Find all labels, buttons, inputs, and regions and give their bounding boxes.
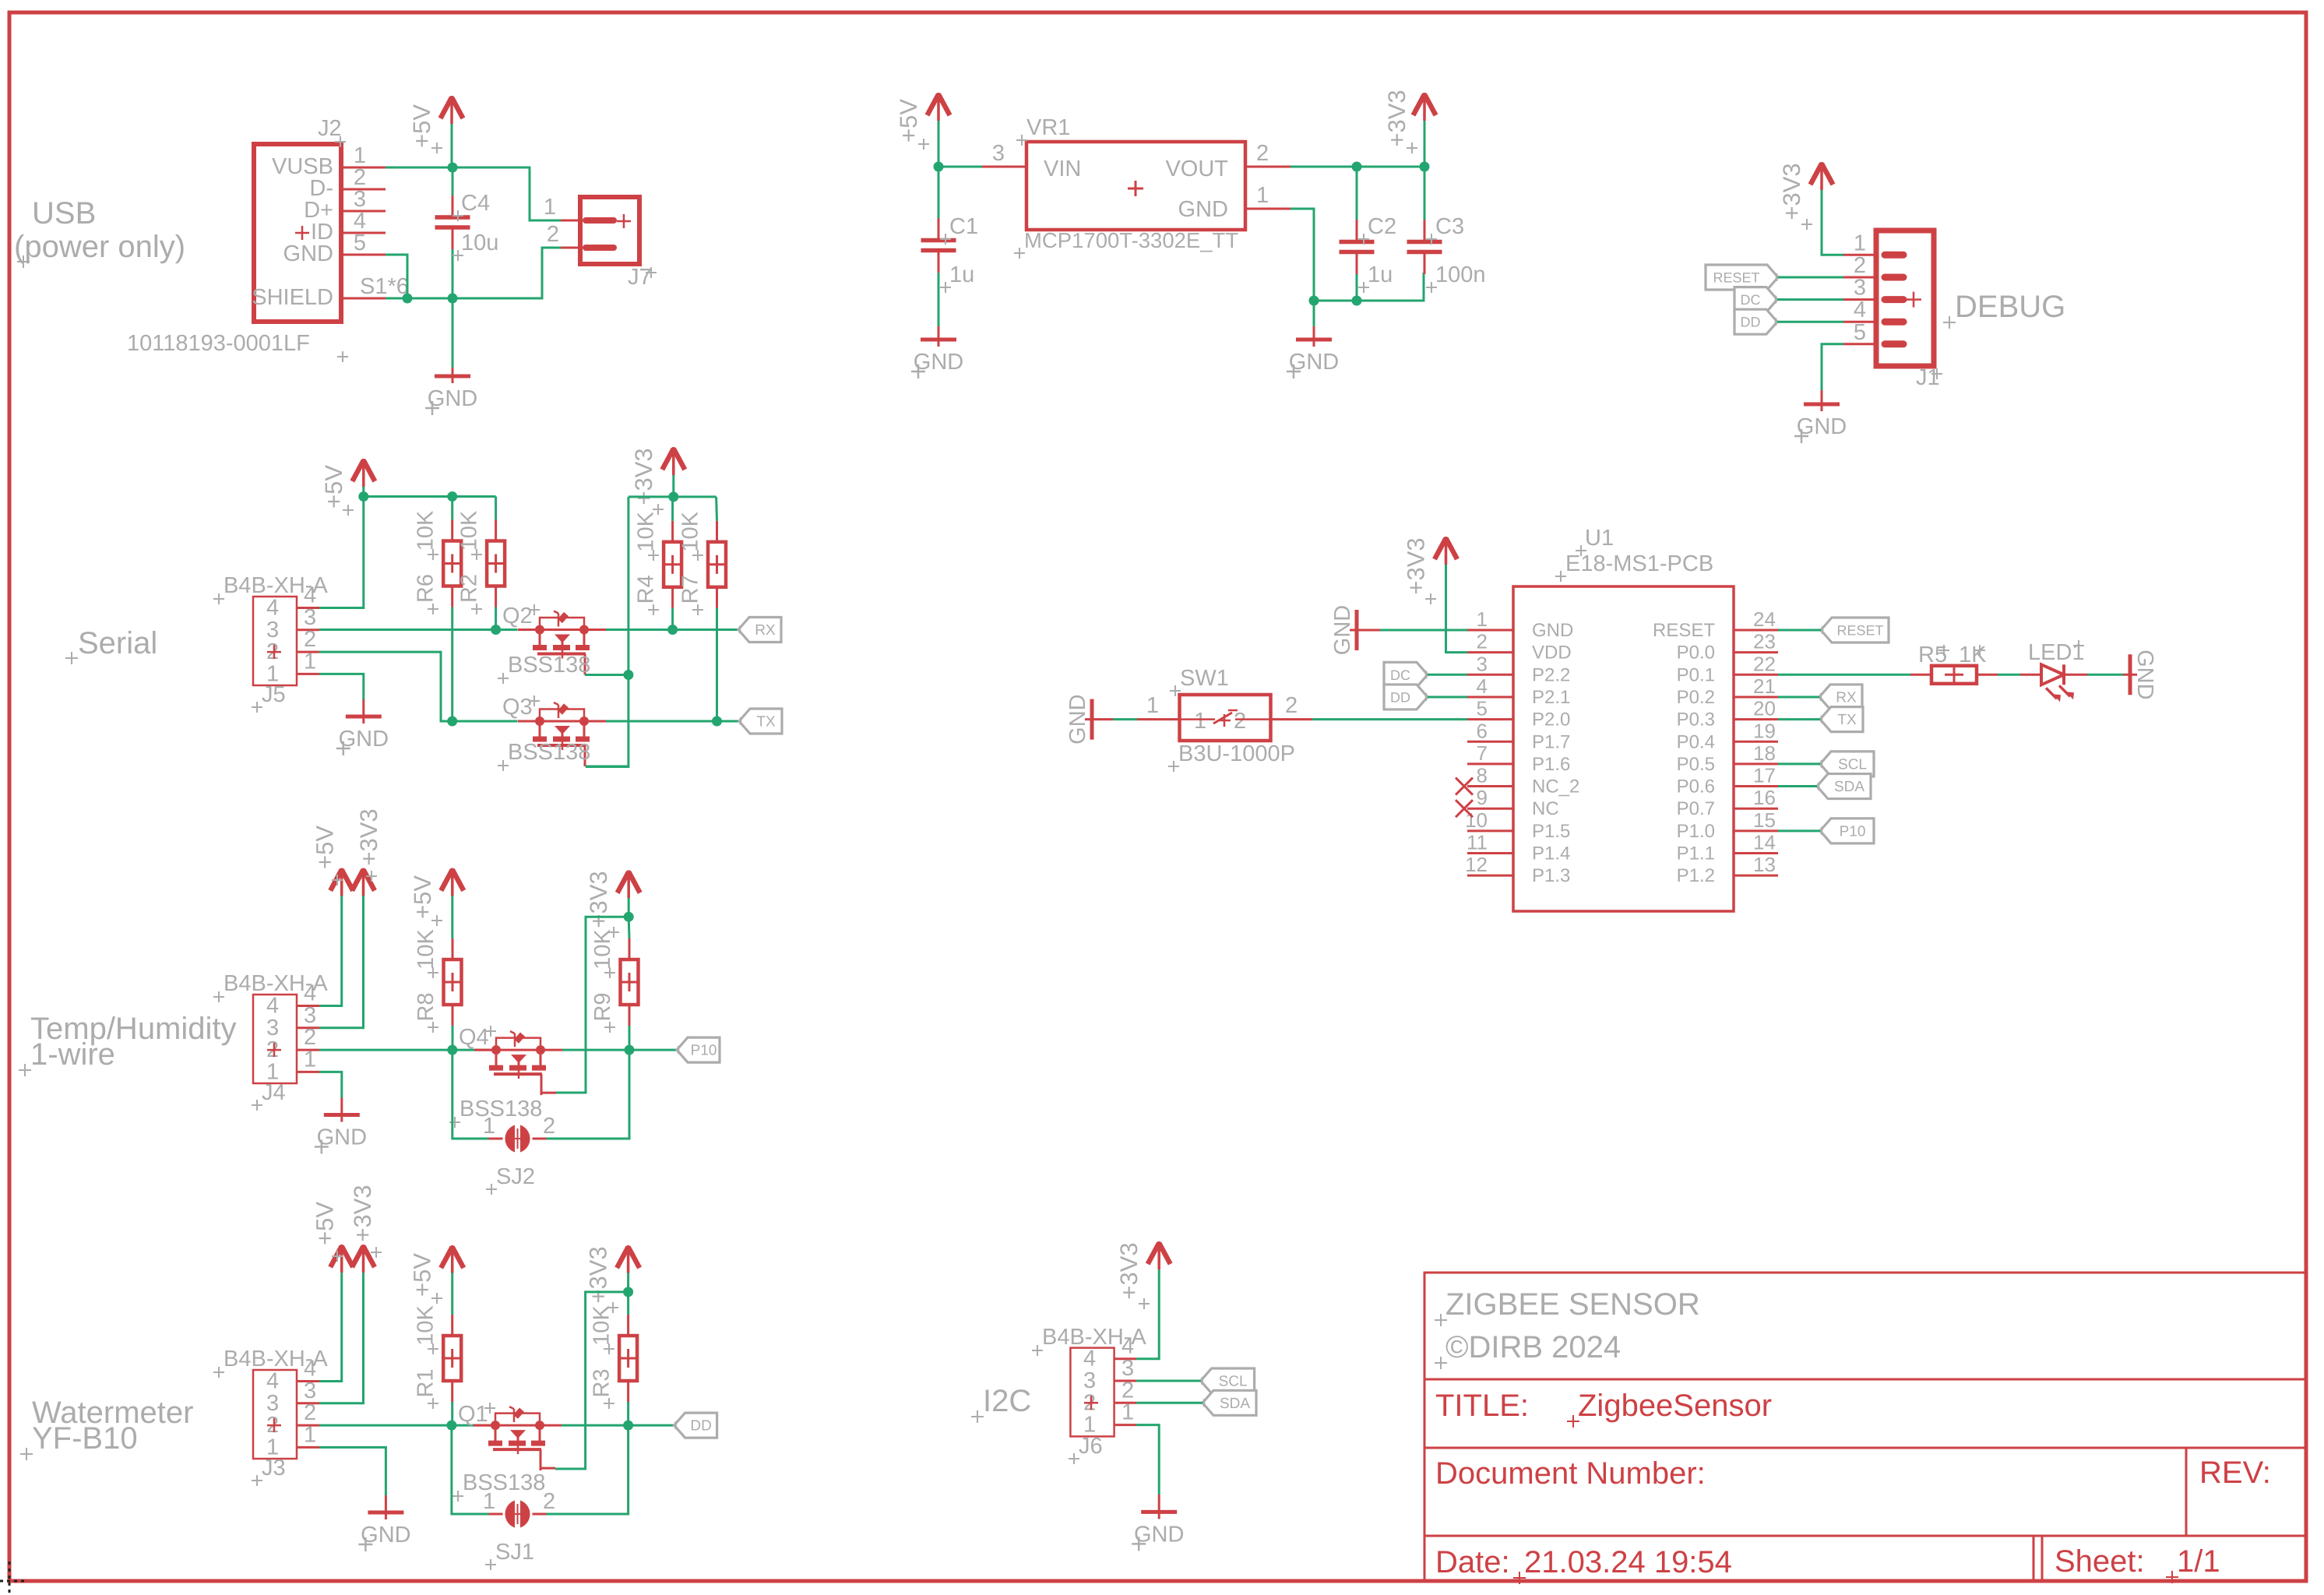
svg-text:TITLE:: TITLE: [1435,1389,1529,1423]
svg-text:10K: 10K [590,1305,614,1346]
power +5V (J4) [312,826,354,896]
svg-text:P0.1: P0.1 [1677,664,1715,685]
wire P10 [1778,829,1820,832]
svg-text:+5V: +5V [409,875,436,919]
capacitor C1 1u [921,167,979,326]
svg-text:1/1: 1/1 [2177,1544,2220,1579]
svg-text:19: 19 [1753,719,1776,742]
svg-text:R1: R1 [414,1368,438,1397]
node RX junction [667,625,678,635]
svg-text:24: 24 [1753,607,1776,631]
wire VOUT to +3V3 [1291,166,1424,168]
flag RX (serial) [738,618,781,643]
resistor R9 10K [590,917,639,1050]
connector J7 (battery) [544,195,657,290]
flag DC (U1) [1384,662,1428,687]
svg-text:1: 1 [1194,709,1206,734]
svg-text:4: 4 [1477,674,1488,698]
svg-text:P1.6: P1.6 [1532,754,1570,775]
connector J2 (USB) [127,116,409,362]
wire SCL i2c [1136,1380,1201,1382]
power +5V (R1) [409,1245,464,1304]
svg-text:11: 11 [1467,831,1488,854]
node Q4 row junction R8 [447,1045,457,1055]
svg-text:8: 8 [1477,764,1488,787]
LED LED1 [2028,640,2085,702]
svg-text:P0.3: P0.3 [1677,709,1715,731]
svg-text:+3V3: +3V3 [1778,163,1805,220]
connector J3 (watermeter) [213,1347,328,1486]
svg-text:9: 9 [1477,786,1488,809]
svg-text:3: 3 [992,141,1005,166]
svg-text:©DIRB 2024: ©DIRB 2024 [1445,1330,1621,1364]
svg-text:3: 3 [304,605,316,630]
svg-text:VDD: VDD [1532,643,1572,664]
wire VIN [938,141,1026,167]
title ZigbeeSensor [1567,1389,1772,1428]
svg-text:21.03.24 19:54: 21.03.24 19:54 [1524,1545,1732,1579]
svg-text:2: 2 [1854,253,1866,278]
title text ZIGBEE SENSOR [1435,1287,1700,1326]
wire RESET to J1 [1778,276,1843,279]
wire J5 pin1 to GND [319,674,364,699]
svg-text:R2: R2 [457,574,482,603]
svg-text:R8: R8 [414,992,438,1021]
wire +3V3 bus serial [629,475,717,497]
flag RX (U1) [1819,685,1862,709]
connector J6 (I2C) [1032,1325,1146,1464]
svg-text:4: 4 [266,596,279,621]
svg-text:2: 2 [547,222,559,247]
wire J3 pin4 to +5V [319,1273,342,1382]
wire J6 pin4 to +3V3 [1136,1269,1159,1359]
svg-text:+5V: +5V [408,104,435,148]
title Date [1435,1545,1510,1579]
node +5V junction [358,491,368,502]
node DD junction [623,1421,633,1431]
transistor Q1 BSS138 [452,1402,562,1502]
svg-text:12: 12 [1465,853,1488,876]
svg-text:10K: 10K [634,511,659,551]
svg-text:P1.0: P1.0 [1677,821,1715,842]
svg-text:5: 5 [354,231,366,255]
node R6 top junction [447,491,457,502]
wire DC to J1 [1777,298,1843,301]
svg-text:SCL: SCL [1219,1374,1248,1390]
wire Q3 drain to TX [606,720,739,723]
wire R5 to LED1 [1998,674,2041,676]
resistor R2 10K [457,510,505,614]
svg-text:+5V: +5V [312,826,339,869]
svg-text:1K: 1K [1959,643,1987,667]
ground GND (J3) [358,1495,410,1551]
svg-text:RESET: RESET [1653,620,1715,641]
title block frame [1424,1273,2306,1581]
jumper SJ1 [452,1425,629,1570]
title sheet value [2166,1544,2220,1583]
svg-text:SDA: SDA [1220,1396,1250,1412]
svg-text:C1: C1 [949,214,978,239]
svg-text:3: 3 [266,1016,279,1040]
svg-text:J3: J3 [262,1456,286,1481]
svg-text:2: 2 [304,1025,316,1050]
power +5V (serial) [320,459,375,516]
wire 3V3 branch to gate bus [586,497,629,767]
svg-text:P10: P10 [691,1043,717,1059]
wire +3V3 arrow to VOUT [1424,121,1426,167]
svg-text:2: 2 [543,1489,555,1514]
svg-text:10K: 10K [414,510,438,551]
ground GND (regulator) [1287,301,1339,379]
svg-text:1: 1 [544,195,556,220]
svg-text:SW1: SW1 [1180,666,1229,691]
svg-text:1-wire: 1-wire [30,1037,115,1072]
svg-text:R9: R9 [590,992,615,1021]
jumper SJ2 [452,1050,629,1195]
svg-text:5: 5 [1477,697,1488,720]
title TITLE label [1435,1389,1529,1423]
svg-text:P0.5: P0.5 [1677,754,1715,775]
svg-text:TX: TX [756,714,776,731]
node Q2 row junction [491,625,501,635]
wire R2 bottom [495,607,497,630]
capacitor C2 1u [1340,167,1397,301]
regulator VR1 MCP1700T-3302E_TT [1014,115,1245,259]
transistor Q4 BSS138 [449,1025,562,1128]
svg-text:P0.6: P0.6 [1677,776,1715,797]
svg-text:3: 3 [1477,652,1488,675]
svg-text:Serial: Serial [78,626,157,660]
svg-text:3: 3 [1122,1356,1134,1381]
svg-text:R6: R6 [414,574,438,603]
power +3V3 (debug) [1778,162,1833,230]
ground GND (debug) [1794,390,1847,443]
resistor R8 10K [414,896,462,1050]
wire +5V arrow down [451,124,453,167]
flag TX (U1) [1820,707,1863,732]
wire SCL [1778,762,1820,765]
svg-text:ZIGBEE SENSOR: ZIGBEE SENSOR [1445,1287,1700,1322]
node +3V3 junction serial [668,491,678,502]
node VOUT junction C2 [1352,162,1362,172]
node gnd junction 1 [1309,296,1319,306]
svg-text:VIN: VIN [1044,157,1081,181]
wire +3V3 to R9 [628,898,630,917]
wire SDA [1778,785,1817,787]
ground GND (J4) [315,1098,367,1154]
wire shield row [386,248,561,298]
svg-text:1: 1 [1122,1400,1134,1425]
svg-text:Q2: Q2 [502,604,533,628]
svg-text:+5V: +5V [409,1253,436,1297]
node shield junction 1 [403,294,413,304]
section label Serial [65,626,157,664]
wire +3V3 to R3 [627,1273,629,1292]
svg-text:21: 21 [1753,674,1776,698]
svg-text:R3: R3 [590,1368,614,1397]
wire DD to J1 [1777,321,1843,323]
wire J6 pin1 to GND [1136,1425,1159,1495]
wire J4 pin1 to GND [319,1072,342,1097]
wire DC to P2.2 [1428,674,1467,676]
wire J5 pin4 to +5V [319,497,364,608]
svg-text:17: 17 [1753,764,1776,787]
svg-text:2: 2 [1122,1378,1134,1403]
frame corner mark [0,1562,27,1595]
wire J4 pin3 to +3V3 [319,896,364,1028]
svg-text:+5V: +5V [895,99,922,143]
svg-text:15: 15 [1753,808,1776,832]
power +5V (R8) [409,868,464,926]
resistor R7 10K [678,497,727,721]
svg-text:1: 1 [483,1114,495,1139]
svg-text:P1.3: P1.3 [1532,865,1570,886]
flag DD (U1) [1384,685,1428,709]
wire Q2 gate join [585,674,629,676]
section label Temp/Humidity [19,1012,237,1076]
flag DD (debug) [1734,309,1777,334]
svg-text:RX: RX [755,622,776,639]
svg-text:3: 3 [1854,276,1866,301]
svg-text:23: 23 [1753,630,1776,653]
svg-text:10K: 10K [414,929,438,970]
svg-text:J6: J6 [1079,1434,1103,1459]
svg-text:1u: 1u [1368,262,1393,287]
node P10 junction [625,1045,635,1055]
svg-text:BSS138: BSS138 [508,740,590,765]
power +3V3 (U1) [1403,537,1458,604]
wire VR1 GND down [1291,209,1314,301]
svg-text:6: 6 [1477,719,1488,742]
wire VUSB to J7 pin1 [452,167,561,220]
pin VR1 VOUT [1245,141,1291,167]
svg-text:100n: 100n [1435,262,1486,287]
flag SCL (I2C) [1201,1368,1255,1393]
svg-text:1: 1 [1256,183,1269,208]
svg-text:GND: GND [1178,197,1228,222]
resistor R5 1K [1910,643,1998,684]
svg-text:RESET: RESET [1836,623,1883,639]
svg-text:B4B-XH-A: B4B-XH-A [1042,1325,1146,1350]
svg-text:2: 2 [1234,709,1246,734]
resistor R4 10K [634,497,682,630]
svg-text:2: 2 [1256,141,1269,166]
svg-text:10K: 10K [414,1305,438,1346]
svg-text:J4: J4 [262,1080,286,1105]
power +5V (regulator) [895,93,950,150]
flag SDA (I2C) [1202,1390,1256,1415]
wire to Q2 source [496,628,518,631]
svg-text:1u: 1u [949,262,974,287]
wire gnd bus [1314,273,1424,301]
wire SW1 pin1 [1113,693,1180,720]
wire Q4 gate lead [541,1092,556,1094]
node +3V3 junction wat [623,1287,633,1297]
title Document Number [1435,1456,1706,1491]
switch SW1 B3U-1000P [1168,666,1295,772]
svg-text:P2.2: P2.2 [1532,664,1570,685]
svg-text:Sheet:: Sheet: [2055,1544,2145,1579]
wire SW1 pin2 to P2.0 [1271,693,1468,720]
node Q3 row junction R6 [447,717,457,727]
svg-text:(power only): (power only) [14,230,185,264]
svg-text:10118193-0001LF: 10118193-0001LF [127,331,310,356]
svg-text:GND: GND [1532,620,1573,641]
svg-text:R5: R5 [1918,643,1947,667]
svg-text:4: 4 [266,1369,279,1394]
svg-text:16: 16 [1753,786,1776,809]
svg-text:BSS138: BSS138 [460,1097,542,1121]
svg-text:YF-B10: YF-B10 [32,1421,138,1456]
wire Q2 drain to RX [606,628,738,631]
svg-text:18: 18 [1753,741,1776,765]
node TX junction R7 [712,717,722,727]
svg-text:+3V3: +3V3 [585,1246,612,1303]
wire J3 pin3 to +3V3 [319,1273,364,1403]
wire J3 pin2 row [319,1424,476,1427]
svg-text:P1.1: P1.1 [1677,843,1715,864]
svg-text:P10: P10 [1840,823,1866,840]
ground GND (USB) [425,298,477,415]
svg-text:+5V: +5V [320,465,347,509]
svg-text:GND: GND [283,241,333,266]
node +3V3 junction temp [624,912,634,922]
IC U1 E18-MS1-PCB [1456,526,1778,911]
svg-text:DD: DD [1390,689,1410,705]
svg-text:NC: NC [1532,798,1559,819]
svg-text:+3V3: +3V3 [355,808,382,865]
svg-text:C3: C3 [1435,214,1464,239]
wire Q4 drain row [562,1049,677,1051]
wire R6 bottom to Q3 row [451,607,453,722]
wire RX [1778,695,1819,698]
svg-text:GND: GND [2132,650,2157,699]
svg-text:ZigbeeSensor: ZigbeeSensor [1578,1389,1772,1423]
svg-text:3: 3 [304,1003,316,1028]
svg-text:BSS138: BSS138 [508,653,590,678]
title Sheet [2055,1544,2145,1579]
svg-text:+3V3: +3V3 [585,871,612,928]
svg-text:Document Number:: Document Number: [1435,1456,1706,1491]
svg-text:2: 2 [304,627,316,652]
power +3V3 (I2C) [1115,1241,1171,1309]
resistor R6 10K [414,497,462,615]
wire GND pin5 down [386,255,407,298]
wire J5 pin2 to Q3 [319,652,518,721]
svg-text:J5: J5 [262,682,286,707]
wire J4 pin2 row [319,1049,477,1051]
power +3V3 (serial) [630,447,685,515]
svg-text:USB: USB [32,196,96,231]
wire +5V to VIN node [938,121,940,167]
svg-text:SJ2: SJ2 [496,1164,535,1189]
wire RESET [1778,629,1821,632]
svg-text:VR1: VR1 [1026,115,1070,140]
svg-text:1: 1 [304,1422,316,1447]
ground GND (serial) [336,699,389,755]
connector J4 (temp/humidity) [213,971,328,1111]
svg-text:1: 1 [1146,693,1159,718]
section label Watermeter [20,1396,193,1460]
wire VUSB to +5V node [386,167,452,169]
svg-text:Q4: Q4 [459,1025,489,1050]
svg-text:1: 1 [1854,231,1866,255]
svg-text:NC_2: NC_2 [1532,776,1579,797]
node gate bus junction [623,670,633,680]
svg-text:1: 1 [304,1047,316,1072]
svg-text:RESET: RESET [1713,270,1759,286]
svg-text:4: 4 [1854,298,1866,322]
wire Q1 gate lead [541,1467,555,1470]
svg-text:U1: U1 [1585,526,1614,551]
svg-text:P0.0: P0.0 [1677,643,1715,664]
svg-text:B4B-XH-A: B4B-XH-A [224,573,328,598]
svg-text:B3U-1000P: B3U-1000P [1178,741,1295,766]
svg-text:P2.1: P2.1 [1532,687,1570,708]
svg-text:10K: 10K [590,929,615,970]
svg-text:RX: RX [1836,689,1857,706]
resistor R3 10K [590,1292,638,1425]
svg-text:5: 5 [1854,320,1866,345]
svg-text:10K: 10K [678,511,703,551]
svg-text:J7: J7 [628,265,652,290]
svg-text:10K: 10K [457,510,482,551]
flag SDA (U1) [1817,774,1871,799]
wire SDA i2c [1136,1402,1202,1404]
svg-text:1: 1 [483,1489,495,1514]
svg-text:22: 22 [1753,652,1776,675]
power +3V3 (J4) [352,808,382,896]
svg-text:SHIELD: SHIELD [252,285,333,310]
svg-text:1: 1 [304,649,316,674]
svg-text:14: 14 [1753,831,1776,854]
svg-text:13: 13 [1753,853,1776,876]
svg-text:P1.7: P1.7 [1532,731,1570,752]
flag TX (serial) [739,709,782,734]
svg-text:P1.2: P1.2 [1677,865,1715,886]
pin VR1 GND [1245,183,1291,209]
wire LED1 to GND [2064,674,2123,676]
ground GND (LED1) [2123,650,2157,699]
svg-text:+3V3: +3V3 [1383,90,1410,146]
svg-text:SDA: SDA [1834,779,1864,795]
svg-text:S1*6: S1*6 [360,274,409,299]
wire J4 pin4 to +5V [319,896,342,1006]
svg-text:3: 3 [266,618,279,643]
wire J1 pin5 to GND [1822,344,1843,390]
svg-text:Q3: Q3 [502,695,533,720]
node Q1 row junction R1 [446,1421,456,1431]
svg-text:7: 7 [1477,741,1488,765]
svg-text:1: 1 [1477,607,1488,631]
ground GND (U1 pin1) [1330,605,1467,655]
ground GND (C1) [911,326,963,379]
wire +3V3 to VDD [1446,565,1468,653]
svg-text:+5V: +5V [312,1202,339,1245]
svg-text:GND: GND [1065,694,1090,744]
svg-text:P0.7: P0.7 [1677,798,1715,819]
svg-text:2: 2 [543,1114,555,1139]
svg-text:DD: DD [1741,315,1761,330]
flag SCL (U1) [1820,752,1874,776]
svg-text:20: 20 [1753,697,1776,720]
power +3V3 (R3) [585,1245,640,1313]
title REV [2199,1456,2271,1490]
resistor R1 10K [414,1273,462,1425]
power +5V (J3) [312,1202,354,1273]
svg-text:DEBUG: DEBUG [1955,290,2065,324]
svg-text:MCP1700T-3302E_TT: MCP1700T-3302E_TT [1024,228,1238,252]
